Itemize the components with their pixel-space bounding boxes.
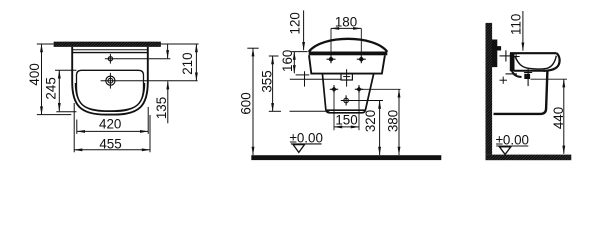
dim 455 left extension: [73, 103, 75, 152]
dim 110 line: [522, 11, 524, 51]
tap hole outer circle: [106, 76, 115, 85]
dim 420 left extension: [76, 120, 78, 134]
pedestal fixing hole left: [330, 85, 338, 93]
dim 380 line: [398, 89, 400, 155]
overflow hole vertical tick: [109, 54, 111, 64]
dim 600 line: [252, 48, 254, 155]
dim 210 top extension: [161, 43, 199, 45]
floor (hatched, side view): [486, 155, 572, 161]
svg-text:150: 150: [335, 113, 357, 128]
svg-text:135: 135: [154, 97, 169, 119]
wall (hatched bar, top view): [54, 42, 161, 47]
dim 440 line: [563, 79, 565, 154]
svg-text:180: 180: [335, 15, 357, 30]
svg-text:110: 110: [508, 14, 523, 35]
tap hole inner circle: [108, 78, 113, 83]
basin bottom (side): [514, 70, 545, 72]
dim 455 line: [74, 149, 150, 151]
tap hole cross on rim: [513, 54, 520, 60]
dim 420 right extension: [147, 107, 149, 134]
pedestal fixing hole right: [355, 85, 363, 93]
svg-text:440: 440: [551, 107, 566, 129]
basin front rim thick band: [309, 52, 388, 56]
svg-text:210: 210: [180, 52, 195, 74]
basin front outer curve: [544, 53, 560, 71]
dim 160 top tick: [291, 51, 307, 53]
datum triangle (side): [499, 147, 510, 155]
washbasin outer outline (top view): [72, 47, 148, 115]
dim 455 right extension: [149, 115, 151, 152]
datum triangle: [293, 145, 304, 153]
dim 400 bottom extension: [37, 114, 72, 116]
fixing cross upper: [499, 50, 512, 61]
pedestal (side): [494, 71, 548, 114]
dim 135 line: [167, 81, 169, 123]
basin back edge: [510, 53, 515, 71]
basin rim top (side): [510, 52, 557, 54]
svg-text:245: 245: [44, 77, 59, 99]
drain centerline vertical: [346, 69, 348, 86]
basin inner bowl (side): [515, 56, 556, 69]
svg-text:120: 120: [288, 12, 303, 34]
trap outlet S-curve: [512, 71, 522, 78]
dim 400 line: [41, 44, 43, 115]
dim 180 left extension: [330, 28, 332, 54]
svg-text:455: 455: [99, 137, 121, 152]
pedestal inner bottom line: [327, 109, 365, 111]
overflow hole horizontal line / extension to 210: [105, 58, 170, 60]
back ledge line 2: [73, 52, 147, 54]
dim 420 line: [77, 130, 148, 132]
drain cross tick (side): [524, 72, 532, 74]
tap hole horizontal line / extension to 135: [101, 80, 198, 82]
svg-text:420: 420: [99, 117, 121, 132]
dim 245 line: [58, 70, 60, 111]
fixing hole right (cross): [357, 55, 366, 63]
dim 150 line: [334, 126, 359, 128]
datum underline: [291, 143, 322, 145]
basin body: [309, 55, 385, 73]
dim 440 top extension: [531, 78, 568, 80]
small tick crossing: [304, 71, 306, 86]
svg-text:600: 600: [238, 92, 253, 114]
svg-text:400: 400: [27, 63, 42, 85]
dim 210 line: [167, 44, 169, 58]
drain fitting rect: [341, 74, 352, 80]
pedestal outline: [322, 74, 373, 113]
dim 150 right extension: [358, 94, 360, 131]
inner bowl outline: [77, 70, 144, 111]
fixing cross lower: [500, 77, 508, 84]
svg-text:320: 320: [363, 110, 378, 132]
svg-text:355: 355: [259, 70, 274, 92]
basin top curve: [309, 39, 388, 52]
dim 245 top extension: [55, 69, 77, 71]
pedestal top line (side): [506, 73, 518, 75]
washbasin front rim inner line (double bottom edge): [75, 83, 144, 111]
dim 150 left extension: [333, 94, 335, 131]
pedestal holes extension right: [359, 88, 401, 90]
dim 320 line: [379, 101, 381, 156]
wall (hatched, side view): [486, 23, 493, 155]
fixing hole left (cross): [327, 55, 336, 63]
wall mounting block: [492, 40, 501, 68]
svg-text:160: 160: [280, 50, 295, 72]
dim 600 top tick: [247, 47, 258, 49]
dim 355 bottom tick: [269, 110, 281, 112]
tap hole vertical line: [109, 73, 111, 89]
basin bottom extension line: [296, 74, 310, 76]
drain level line left: [290, 78, 341, 80]
dim 355 line: [272, 56, 274, 111]
drain centerline vertical (side): [527, 69, 529, 86]
pedestal bottom extension line: [290, 110, 330, 112]
datum underline (side): [496, 145, 528, 147]
drain hole (cross): [341, 95, 383, 105]
dim 180 line: [331, 27, 361, 29]
overflow hole: [108, 57, 112, 61]
dim 160 line: [293, 52, 295, 74]
dim 355 top tick: [269, 55, 279, 57]
dim 180 right extension: [360, 28, 362, 54]
svg-text:380: 380: [386, 110, 401, 132]
dim 400 top extension: [37, 43, 54, 45]
back ledge line 1: [73, 49, 147, 51]
floor (front view): [251, 155, 441, 160]
drain block: [524, 74, 530, 79]
dim 120 line: [303, 10, 305, 50]
